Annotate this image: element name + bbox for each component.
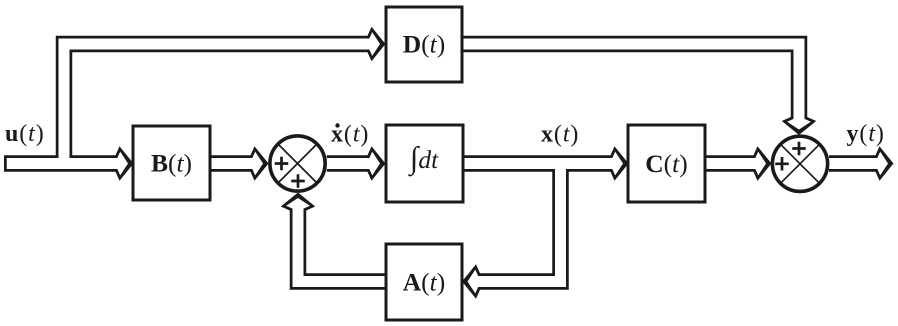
svg-text:D(t): D(t) [403, 29, 446, 58]
svg-text:u(t): u(t) [5, 121, 45, 147]
svg-text:x(t): x(t) [541, 122, 579, 148]
svg-text:A(t): A(t) [403, 267, 446, 296]
svg-text:∫dt: ∫dt [408, 140, 439, 177]
svg-text:B(t): B(t) [151, 149, 192, 178]
svg-text:C(t): C(t) [645, 149, 688, 178]
svg-text:y(t): y(t) [847, 121, 885, 147]
